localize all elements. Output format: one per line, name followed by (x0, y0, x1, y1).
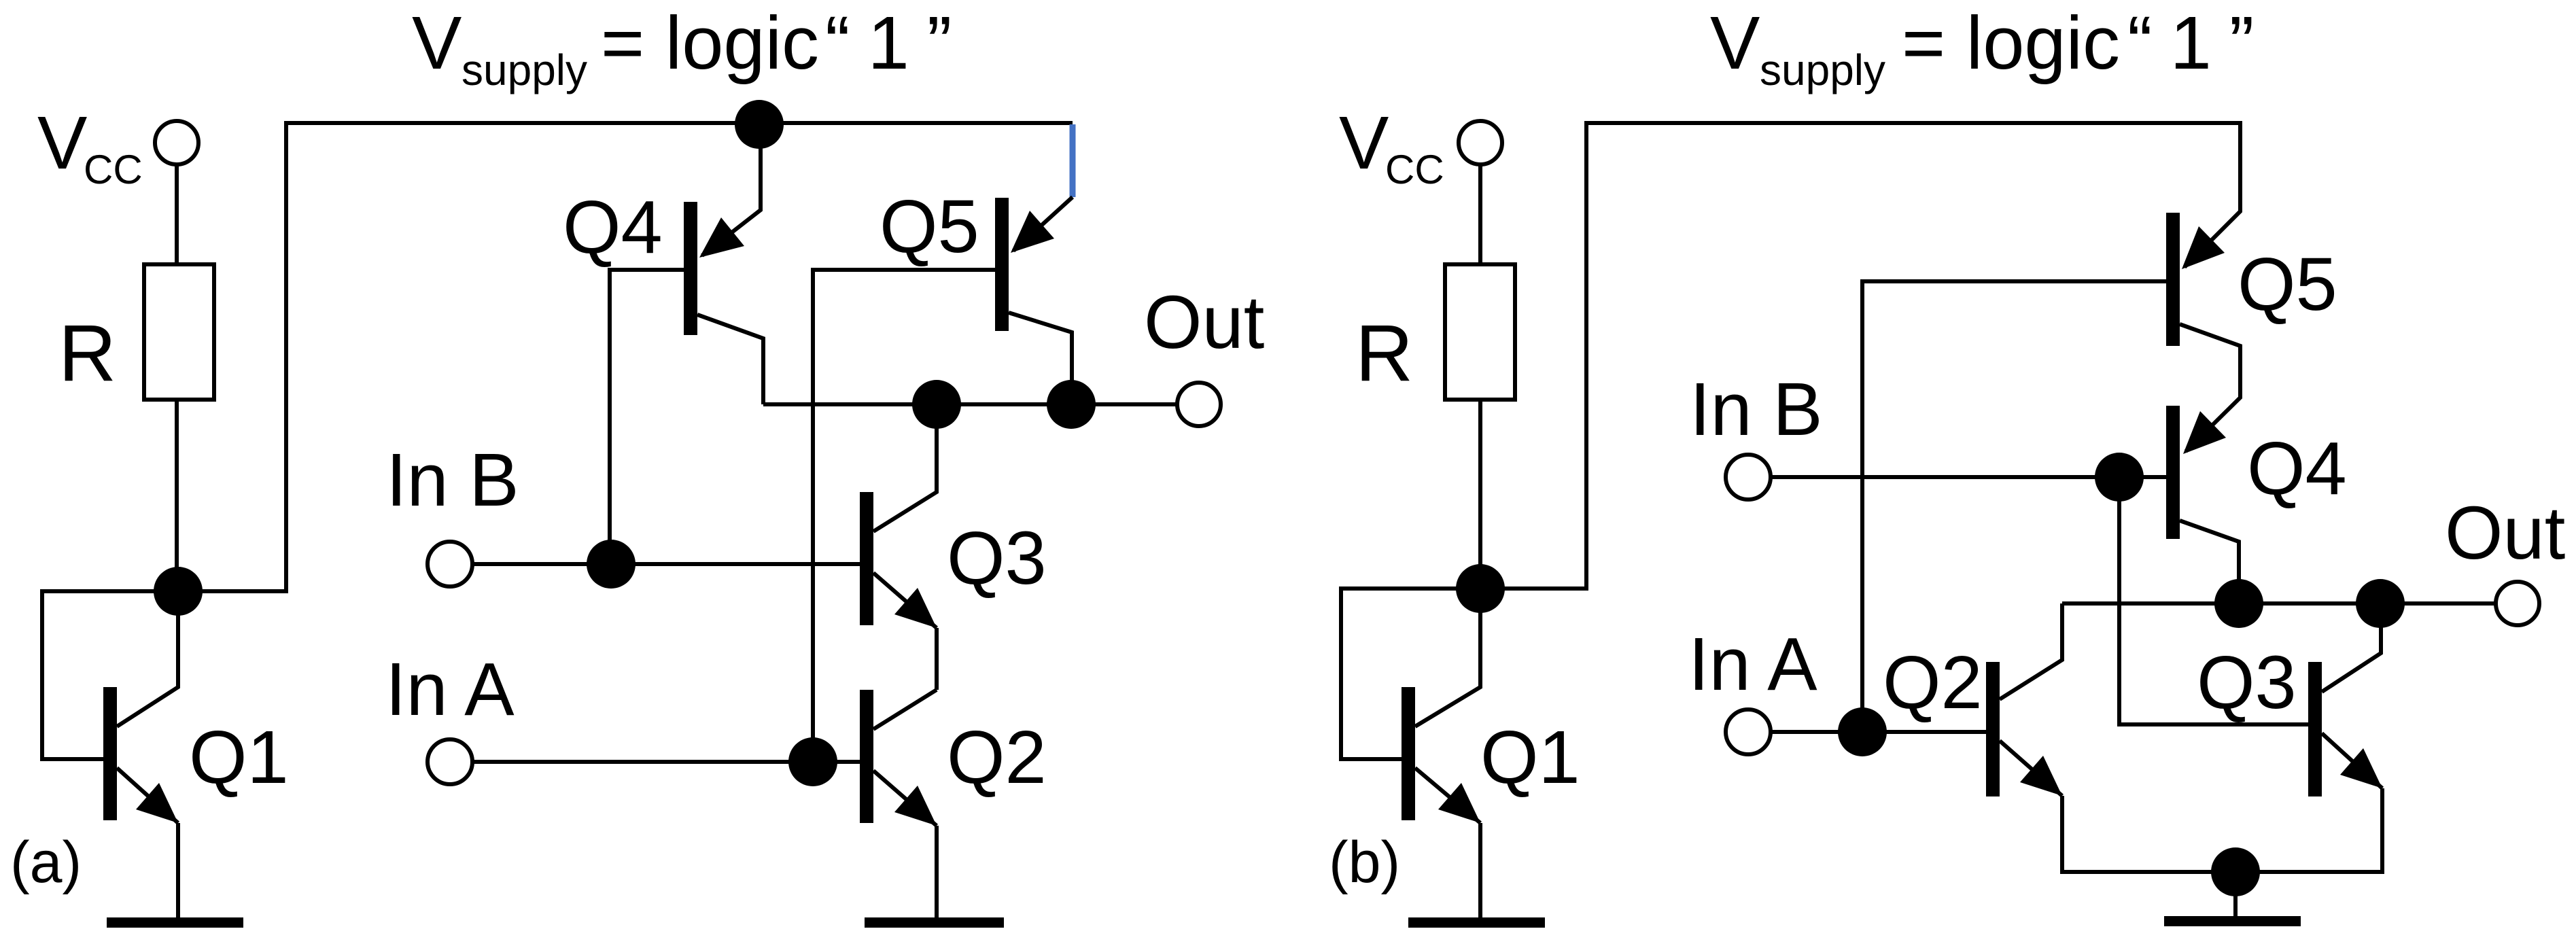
terminal circle In A (a) (428, 739, 472, 784)
terminal circle Out (b) (2496, 582, 2539, 625)
transistor Q1 bar (b) (1402, 687, 1415, 820)
transistor Q2 emitter arrowhead (a) (894, 786, 937, 826)
resistor R (b) (1445, 264, 1515, 400)
wire Q3 emitter to Q2 collector (a) (935, 628, 939, 690)
wire out line (b) (2062, 601, 2496, 606)
wire node to Q1 base (a) (42, 591, 178, 759)
resistor R (a) (144, 264, 214, 400)
wire Q2 emitter (b) (2000, 741, 2062, 796)
wire ground stub (b right) (2233, 872, 2238, 917)
transistor Q4 bar (b) (2166, 406, 2180, 539)
wire Q2 collector (a) (873, 690, 937, 729)
wire Q4 collector to out line (b) (2180, 521, 2239, 603)
terminal circle Vcc (b) (1459, 121, 1502, 164)
junction dot In A (a) (788, 737, 837, 786)
transistor Q5 emitter arrowhead (a) (1011, 211, 1054, 253)
wire In B to Q3 base (a) (472, 562, 860, 566)
svg-text:Q3: Q3 (2197, 641, 2297, 724)
wire Vcc stub (a) (175, 164, 179, 266)
transistor Q4 emitter arrowhead (a) (699, 217, 744, 258)
wire Q2 emitter to ground (a) (935, 826, 939, 918)
svg-text:Q1: Q1 (189, 716, 289, 799)
junction dot Q4 leg on out line (b) (2214, 579, 2263, 628)
transistor Q5 bar (a) (995, 198, 1009, 331)
svg-text:V: V (1339, 101, 1389, 185)
svg-text:V: V (1710, 1, 1760, 85)
wire rail to Q4 emitter (a) (702, 124, 761, 256)
terminal circle Out (a) (1177, 383, 1221, 426)
wire Q2 emitter to bottom rail (b) (2062, 788, 2382, 872)
wire Q3 emitter (a) (873, 573, 937, 628)
svg-text:V: V (412, 1, 462, 85)
wire Q2 emitter (a) (873, 771, 937, 826)
svg-text:supply: supply (462, 46, 587, 94)
wire Q4 collector to out line (a) (697, 315, 763, 404)
transistor Q1 bar (a) (103, 687, 117, 820)
wire Q5 collector leg to Q4 emitter (b) (2180, 324, 2240, 451)
svg-text:(a): (a) (10, 830, 82, 895)
wire Vcc stub (b) (1478, 164, 1482, 266)
wire Q5 base to In A column (a) (813, 270, 995, 762)
junction dot In B (a) (587, 540, 636, 589)
svg-text:R: R (1355, 309, 1413, 398)
transistor Q3 emitter arrowhead (b) (2340, 748, 2382, 788)
junction dot In B (b) (2095, 453, 2144, 502)
terminal circle In B (a) (428, 542, 472, 586)
transistor Q1 emitter arrowhead (a) (136, 783, 178, 823)
node junction dot (b) (1456, 564, 1505, 613)
wire Q3 collector to out dot (a) (873, 404, 937, 531)
transistor Q4 bar (a) (684, 202, 697, 335)
junction dot on top rail (a) (735, 100, 784, 149)
svg-text:Q1: Q1 (1480, 716, 1580, 799)
node A junction dot (a) (154, 567, 203, 616)
transistor Q4 emitter arrowhead (b) (2183, 411, 2226, 454)
wire blue seg to Q5 emitter (a) (1013, 197, 1073, 251)
svg-text:Q2: Q2 (947, 716, 1047, 799)
wire Q1 emitter to ground (b) (1478, 823, 1482, 918)
svg-text:Q4: Q4 (2247, 427, 2347, 510)
wire Q4 base to In B (a) (610, 270, 684, 564)
wire In A to Q2 base (a) (472, 760, 860, 764)
junction dot Q3 collector on out line (b) (2356, 579, 2405, 628)
wire In A to Q2 base (b) (1771, 730, 1986, 734)
wire Q1 emitter (b) (1415, 768, 1480, 823)
wire In B dot down to Q3 base (b) (2119, 477, 2308, 724)
transistor Q2 bar (b) (1986, 662, 2000, 796)
svg-text:Q3: Q3 (947, 516, 1047, 600)
transistor Q5 emitter arrowhead (b) (2182, 226, 2225, 269)
wire node to top rail and Q5 emitter (b) (1480, 123, 2240, 589)
transistor Q1 emitter arrowhead (b) (1438, 783, 1480, 823)
wire out line corner to Q2 collector (b) (2000, 603, 2062, 699)
svg-text:= logic: = logic (601, 1, 819, 85)
ground right (b) (2164, 916, 2301, 926)
svg-text:In A: In A (1688, 623, 1817, 706)
wire Q1 emitter (a) (117, 768, 178, 823)
svg-text:Q5: Q5 (2238, 243, 2337, 326)
transistor Q2 bar (a) (860, 690, 873, 823)
terminal circle In A (b) (1726, 709, 1771, 754)
transistor Q3 bar (b) (2308, 662, 2322, 796)
svg-text:CC: CC (84, 147, 143, 192)
junction dot In A (b) (1838, 707, 1887, 756)
junction dot bottom rail (b) (2211, 847, 2260, 896)
junction dot Q5 leg on out line (a) (1047, 380, 1096, 429)
wire Q5 emitter leg to out (a) (1009, 313, 1072, 404)
svg-text:Q2: Q2 (1883, 641, 1983, 724)
wire Q1 collector to node (a) (117, 591, 178, 726)
ground right (a) (865, 917, 1004, 928)
wire Q3 collector to out dot (b) (2322, 603, 2381, 692)
svg-text:In A: In A (385, 648, 515, 731)
svg-text:In B: In B (386, 438, 519, 522)
svg-text:Q5: Q5 (880, 185, 979, 268)
blue wire segment (a) (1070, 124, 1076, 197)
transistor Q3 emitter arrowhead (a) (894, 588, 937, 628)
transistor Q2 emitter arrowhead (b) (2020, 756, 2062, 796)
wire R bottom to node (b) (1478, 400, 1482, 589)
ground left (b) (1408, 917, 1545, 928)
wire Q1 emitter to ground (a) (176, 823, 180, 918)
svg-text:In B: In B (1690, 368, 1823, 451)
junction dot Q3 collector on out line (a) (912, 380, 961, 429)
wire Q3 emitter (b) (2322, 733, 2382, 788)
svg-text:Q4: Q4 (563, 186, 663, 269)
svg-text:R: R (58, 309, 116, 398)
transistor Q5 bar (b) (2166, 213, 2180, 346)
wire Q5 base to In A column (b) (1862, 281, 2166, 732)
ground left (a) (107, 917, 243, 928)
svg-text:“1”: “1” (825, 1, 969, 85)
wire Q1 collector to node (b) (1415, 589, 1480, 726)
terminal circle In B (b) (1726, 455, 1771, 500)
svg-text:“1”: “1” (2127, 1, 2272, 85)
svg-text:= logic: = logic (1902, 1, 2120, 85)
wire out line (a) (763, 402, 1177, 406)
svg-text:(b): (b) (1329, 830, 1400, 895)
wire node to top rail (a) (178, 123, 1073, 591)
svg-text:Out: Out (2445, 491, 2565, 575)
svg-text:CC: CC (1385, 147, 1444, 192)
terminal circle Vcc (a) (155, 121, 198, 164)
wire node to Q1 base (b) (1341, 589, 1480, 759)
svg-text:Out: Out (1144, 281, 1264, 364)
svg-text:supply: supply (1760, 46, 1885, 94)
transistor Q3 bar (a) (860, 492, 873, 625)
wire In B to Q4 base (b) (1771, 475, 2166, 479)
svg-text:V: V (37, 101, 87, 185)
wire R bottom to node (a) (175, 400, 179, 591)
